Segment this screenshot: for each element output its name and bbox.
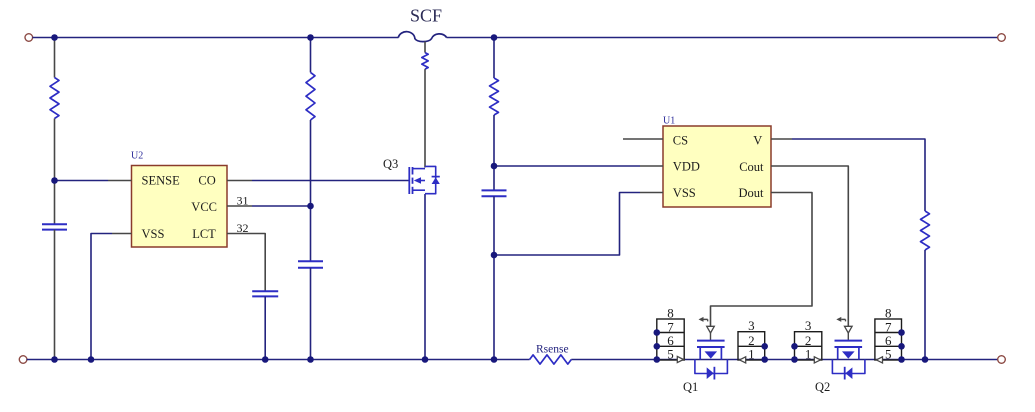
svg-text:U2: U2 bbox=[131, 151, 143, 162]
svg-text:U1: U1 bbox=[663, 116, 675, 127]
svg-text:VDD: VDD bbox=[673, 160, 700, 174]
svg-text:32: 32 bbox=[237, 221, 249, 235]
svg-text:3: 3 bbox=[748, 318, 755, 333]
svg-text:8: 8 bbox=[885, 306, 892, 321]
svg-text:Dout: Dout bbox=[739, 186, 765, 200]
svg-text:7: 7 bbox=[667, 319, 674, 334]
svg-text:Cout: Cout bbox=[739, 160, 764, 174]
svg-text:CO: CO bbox=[198, 174, 215, 188]
svg-text:SCF: SCF bbox=[410, 6, 442, 26]
svg-text:VCC: VCC bbox=[191, 200, 217, 214]
svg-text:CS: CS bbox=[673, 134, 688, 148]
svg-text:7: 7 bbox=[885, 319, 892, 334]
svg-text:VSS: VSS bbox=[673, 186, 696, 200]
svg-text:SENSE: SENSE bbox=[142, 174, 181, 188]
svg-text:VSS: VSS bbox=[142, 227, 165, 241]
svg-text:Q1: Q1 bbox=[683, 380, 698, 394]
svg-text:8: 8 bbox=[667, 306, 674, 321]
svg-text:5: 5 bbox=[667, 346, 674, 361]
svg-text:Rsense: Rsense bbox=[536, 344, 569, 356]
svg-text:V: V bbox=[753, 134, 762, 148]
svg-text:LCT: LCT bbox=[192, 227, 216, 241]
svg-text:5: 5 bbox=[885, 346, 892, 361]
svg-text:Q3: Q3 bbox=[383, 157, 398, 171]
svg-text:1: 1 bbox=[748, 346, 755, 361]
svg-text:1: 1 bbox=[805, 346, 812, 361]
svg-text:Q2: Q2 bbox=[815, 380, 830, 394]
svg-text:3: 3 bbox=[805, 318, 812, 333]
svg-text:31: 31 bbox=[237, 194, 249, 208]
